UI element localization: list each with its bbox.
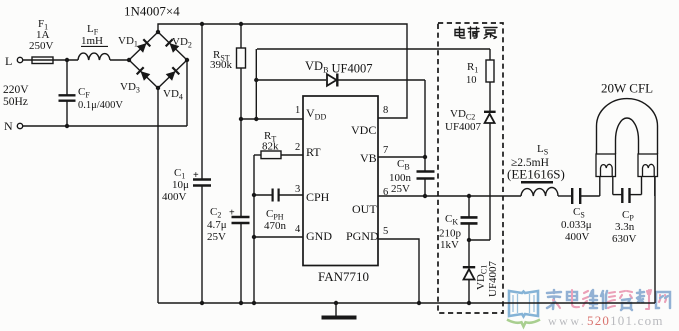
svg-text:GND: GND [306,229,332,243]
svg-text:25V: 25V [207,231,226,243]
svg-text:1N4007×4: 1N4007×4 [124,4,180,19]
svg-text:210p: 210p [439,228,462,240]
svg-text:0.1μ/400V: 0.1μ/400V [78,100,123,111]
wire lamp return riser [654,176,656,303]
svg-text:VDC2: VDC2 [450,108,475,122]
capacitor C1 [201,24,203,179]
capacitor CPH [254,194,272,196]
diode VD2 [166,39,180,53]
svg-text:220V: 220V [3,84,29,96]
svg-text:VDB UF4007: VDB UF4007 [305,59,373,76]
resistor R1 [489,49,491,60]
svg-text:2: 2 [295,142,300,153]
svg-text:PGND: PGND [346,229,379,243]
svg-text:VDD: VDD [306,106,326,122]
fuse F1 [32,57,53,64]
wire pin6 OUT [378,195,521,197]
diode VDB [256,79,326,81]
svg-text:400V: 400V [565,231,590,243]
svg-text:CF: CF [78,86,90,100]
wire pin5 PGND [378,239,419,303]
svg-text:1mH: 1mH [81,35,103,47]
wire VDD supply [257,48,490,50]
ground [335,303,337,316]
diode VD3 [137,67,151,81]
wire bottom ground rail [158,302,655,304]
svg-text:25V: 25V [391,183,410,195]
svg-text:CS: CS [573,206,585,220]
svg-text:C2: C2 [210,206,221,220]
svg-text:470n: 470n [264,220,287,232]
inductor LS core bar [521,181,553,184]
node junction CF top [65,58,69,62]
wire VDB to VB [424,80,426,157]
label VDC1 UF4007 rotated [475,260,499,297]
diode VD1 [136,39,150,53]
capacitor C2 [240,119,242,217]
lamp 20W CFL tube [597,99,658,154]
wire pin1 VDD [241,118,303,120]
svg-text:CPH: CPH [306,190,330,204]
lamp filament housing left [596,154,616,177]
inductor LF [78,53,110,60]
svg-text:CB: CB [397,158,410,172]
svg-text:50Hz: 50Hz [3,96,28,108]
svg-text:www.: www. [548,314,586,328]
svg-text:VD4: VD4 [163,88,183,102]
svg-text:UF4007: UF4007 [445,121,482,133]
capacitor CB [424,157,426,171]
diode bridge wires [129,32,187,88]
svg-text:1: 1 [295,105,300,116]
svg-text:630V: 630V [612,233,637,245]
filament left [601,164,613,176]
svg-text:7: 7 [383,145,388,156]
svg-text:LS: LS [537,143,548,157]
svg-text:VDC: VDC [351,123,376,137]
svg-text:6: 6 [383,187,388,198]
node junction top rail C1 [200,22,204,26]
charge pump dashed box [438,23,503,313]
svg-text:3: 3 [295,184,300,195]
node junction top rail RST [239,22,243,26]
wire N line [23,125,187,127]
svg-text:4: 4 [295,224,301,235]
capacitor CF [66,60,68,95]
svg-text:RT: RT [306,145,321,159]
svg-text:4.7μ: 4.7μ [207,219,227,231]
diode VDC1 [468,240,470,267]
svg-text:R1: R1 [467,61,478,75]
node junction VDD line [239,117,243,121]
svg-text:+: + [193,170,199,181]
svg-text:10: 10 [466,75,477,86]
wire pump node jog [469,239,490,241]
svg-text:VD2: VD2 [172,36,192,50]
svg-text:5: 5 [383,226,388,237]
svg-text:CK: CK [445,213,458,227]
wire L line [23,59,78,61]
svg-text:250V: 250V [29,40,54,52]
capacitor CP [613,194,622,196]
capacitor CS [571,188,573,204]
wire pin7 VB [378,156,425,158]
filament right [643,164,655,176]
svg-text:VB: VB [360,151,377,165]
label charge pump 电荷泵 (vector) [455,27,497,39]
wire bridge bottom to ground rail [157,88,159,303]
svg-text:20W CFL: 20W CFL [601,81,653,96]
op-amp U1 FAN7710 IC body [303,96,378,266]
node junction VDB anode [254,78,258,82]
svg-text:(EE1616S): (EE1616S) [507,167,565,182]
wire filament legs right [641,177,643,195]
resistor RT [261,151,281,159]
lamp filament housing right [638,154,658,177]
svg-text:520101.com: 520101.com [587,313,664,328]
svg-text:8: 8 [383,105,388,116]
node N terminal [17,123,22,128]
wire pin4 GND [254,236,303,238]
watermark logo: book icon [507,291,540,327]
svg-text:OUT: OUT [352,202,377,216]
node bridge vertices [156,30,160,34]
capacitor CK [468,196,470,217]
svg-text:82k: 82k [262,141,279,153]
wire pin2 RT lead [254,154,261,156]
wire RT-CPH-GND vertical [253,155,255,303]
node junction OUT/CK [467,194,471,198]
diode VD4 [165,67,179,81]
svg-text:3.3n: 3.3n [615,221,635,233]
watermark text [547,290,670,310]
svg-text:390k: 390k [210,59,233,71]
svg-text:VD1: VD1 [118,35,138,49]
svg-text:L: L [5,54,12,68]
wire filament legs left [599,177,601,197]
svg-text:400V: 400V [162,191,187,203]
diode VDC2 [484,111,496,113]
svg-text:UF4007: UF4007 [487,260,499,297]
inductor LS [521,188,558,197]
svg-text:0.033μ: 0.033μ [561,219,592,231]
node pump node [467,238,471,242]
svg-text:+: + [229,208,235,219]
svg-text:FAN7710: FAN7710 [318,269,369,284]
svg-text:10μ: 10μ [172,179,189,191]
svg-text:VD3: VD3 [120,81,140,95]
svg-text:1kV: 1kV [440,239,459,251]
wire top rail to VDC pin8 [158,24,407,118]
resistor RST [240,24,242,48]
node L terminal [17,57,22,62]
svg-text:N: N [4,119,13,133]
